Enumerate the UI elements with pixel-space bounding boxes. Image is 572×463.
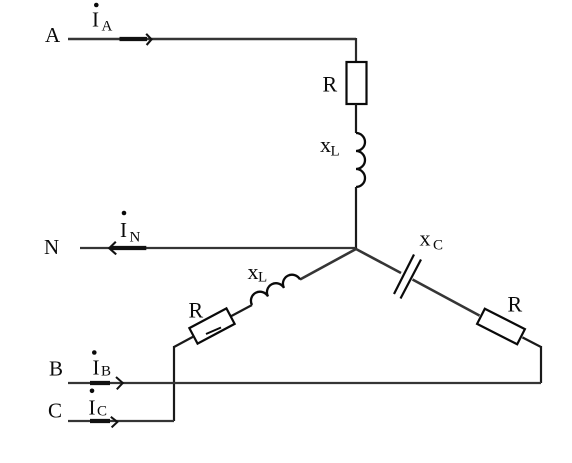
wire phase C: [68, 420, 174, 422]
svg-text:R: R: [508, 292, 523, 317]
inductor L1 (phase A): [356, 133, 365, 187]
wire resistor R2 to corner: [174, 337, 194, 348]
svg-text:I: I: [120, 218, 127, 242]
current label I_B: [92, 350, 111, 379]
wire capacitor to resistor R3: [413, 280, 480, 316]
svg-text:B: B: [49, 357, 63, 381]
svg-text:x: x: [420, 226, 431, 251]
wire inductor to node: [355, 187, 357, 250]
wire node to coil (phase B branch): [300, 249, 356, 280]
wire phase A horizontal: [68, 38, 356, 41]
wire corner down to phase C: [173, 346, 175, 421]
svg-text:N: N: [130, 230, 141, 246]
wire coil to resistor R2: [231, 305, 253, 317]
svg-text:x: x: [320, 132, 331, 157]
resistor R3 (phase C branch): [477, 309, 525, 345]
svg-text:B: B: [101, 364, 111, 380]
wire A down to resistor: [355, 38, 357, 62]
wire resistor to inductor: [355, 104, 357, 133]
svg-text:I: I: [93, 356, 100, 380]
svg-text:L: L: [258, 270, 267, 286]
wire node to capacitor (phase C branch): [356, 249, 401, 273]
dash inside R2: [206, 328, 221, 335]
svg-text:C: C: [97, 404, 107, 420]
resistor R2 (phase B branch): [189, 308, 234, 343]
wire corner down to phase B line: [540, 346, 542, 383]
svg-text:C: C: [433, 238, 443, 254]
arrow I_A: [120, 34, 152, 45]
label x_L (phase A): [320, 132, 340, 160]
current label I_N: [120, 211, 141, 246]
svg-text:N: N: [44, 235, 59, 259]
svg-text:A: A: [102, 19, 113, 35]
wire neutral N: [80, 247, 356, 249]
svg-text:R: R: [323, 72, 338, 97]
svg-text:R: R: [189, 298, 204, 323]
label x_C: [420, 226, 444, 254]
svg-text:I: I: [92, 8, 99, 32]
arrow I_B: [90, 377, 123, 389]
current label I_C: [89, 389, 108, 420]
svg-text:C: C: [48, 399, 62, 423]
svg-text:I: I: [89, 396, 96, 420]
arrow I_C: [90, 417, 117, 428]
current label I_A: [92, 3, 113, 35]
resistor R1 (phase A): [347, 62, 367, 104]
svg-text:A: A: [45, 23, 61, 47]
arrow I_N (pointing left): [109, 242, 146, 255]
inductor L2 (phase B branch): [251, 275, 300, 305]
wire phase B: [68, 382, 541, 384]
capacitor C1 plate 2: [401, 260, 422, 299]
wire resistor R3 to corner: [522, 337, 541, 347]
capacitor C1 plate 1: [394, 255, 414, 295]
svg-text:L: L: [331, 144, 340, 160]
label x_L (phase B branch): [248, 259, 268, 286]
svg-text:x: x: [248, 259, 259, 284]
